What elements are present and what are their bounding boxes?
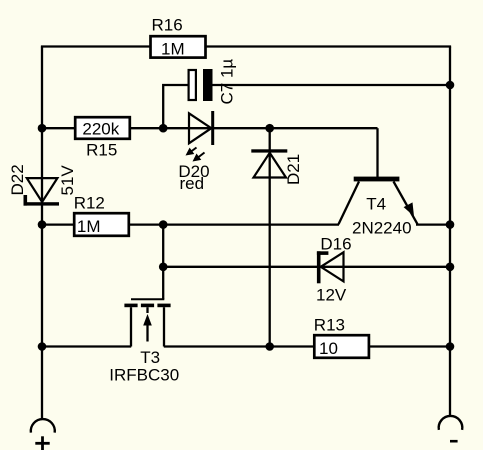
label + — [35, 436, 49, 450]
junction left rail / source — [38, 342, 47, 351]
svg-text:R16: R16 — [152, 15, 183, 34]
junction node D20/D21 — [265, 124, 274, 133]
junction right rail / T4 emitter — [446, 220, 455, 229]
transistor T4 — [339, 177, 418, 225]
svg-text:D16: D16 — [320, 235, 351, 254]
LED D20 — [186, 111, 215, 162]
svg-text:R12: R12 — [74, 194, 105, 213]
svg-text:C7 1µ: C7 1µ — [218, 59, 237, 105]
svg-text:T3: T3 — [140, 348, 160, 367]
junction left rail / R12 — [38, 220, 47, 229]
svg-text:D22: D22 — [8, 164, 27, 195]
wire top net — [41, 45, 451, 47]
svg-text:D21: D21 — [284, 154, 303, 185]
svg-text:R13: R13 — [314, 316, 345, 335]
wire R12 net — [42, 223, 339, 225]
zener D22 — [24, 178, 60, 206]
wire T4 base drop — [376, 128, 378, 177]
terminal - — [439, 416, 463, 430]
svg-text:IRFBC30: IRFBC30 — [109, 365, 179, 384]
mosfet T3 — [124, 299, 170, 346]
wire C7 left branch — [163, 85, 188, 128]
svg-text:red: red — [180, 174, 205, 193]
wire D21 branch — [269, 128, 271, 346]
svg-text:220k: 220k — [82, 119, 119, 138]
zener D16 — [317, 251, 344, 283]
wire gate drop — [162, 225, 164, 300]
svg-text:2N2240: 2N2240 — [352, 219, 412, 238]
junction node R12/gate — [159, 220, 168, 229]
wire right rail — [449, 47, 451, 416]
wire drain net bottom right — [164, 345, 450, 347]
resistor R15 — [75, 117, 130, 139]
junction node gate/D16 — [159, 263, 168, 272]
resistor R12 — [74, 213, 129, 236]
svg-text:R15: R15 — [86, 141, 117, 160]
wire source net bottom left — [42, 345, 131, 347]
capacitor C7 — [189, 69, 213, 101]
wire left rail — [41, 47, 43, 419]
svg-text:12V: 12V — [316, 285, 347, 304]
label - — [450, 440, 458, 443]
diode D21 — [251, 149, 287, 177]
junction right rail / D16 — [446, 263, 455, 272]
svg-text:1M: 1M — [77, 217, 101, 236]
svg-text:1M: 1M — [161, 39, 185, 58]
junction node D21/drain — [265, 342, 274, 351]
junction right rail / R13 — [446, 342, 455, 351]
wire D16 net — [163, 266, 450, 268]
resistor R16 — [151, 36, 206, 57]
junction left rail / R15 — [38, 124, 47, 133]
wire C7 right to rail — [212, 84, 450, 86]
resistor R13 — [314, 335, 369, 358]
wire LED/base net — [42, 127, 378, 129]
terminal + — [31, 419, 55, 433]
svg-text:10: 10 — [319, 339, 338, 358]
svg-text:51V: 51V — [58, 165, 77, 196]
junction node R15/D20/C7 — [159, 124, 168, 133]
wire T4 emitter to rail — [416, 223, 450, 225]
svg-text:T4: T4 — [366, 195, 386, 214]
junction right rail / C7 — [446, 81, 455, 90]
